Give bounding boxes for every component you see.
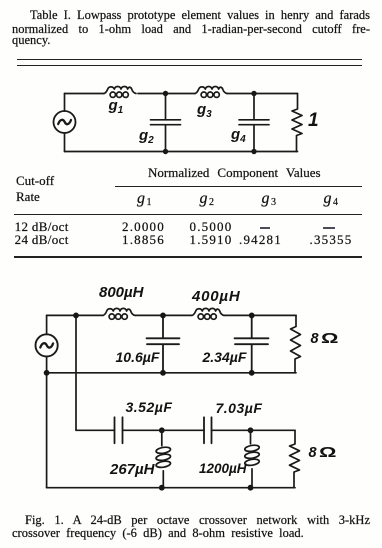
table rule under spanner header [115,186,362,187]
wire HP bottom rail [47,487,295,489]
wire LP bottom rail [47,372,296,374]
source V2 [36,334,58,356]
source V1 [54,111,76,133]
wire source top lead [46,315,48,334]
table bottom rule [14,256,362,258]
resistor R2 8ohm (highpass) [290,430,300,487]
Table I caption line 1 [30,9,370,22]
label g2 [139,128,154,148]
label g1 [109,98,124,118]
capacitor C2 2.34uF [235,315,269,372]
inductor L4 1200uH [244,430,259,487]
inductor L3 267uH [156,430,171,487]
resistor R1 8ohm (lowpass) [291,315,301,372]
capacitor C4 7.03uF [204,417,212,443]
node dots crossover [44,313,255,491]
inductor L2 400uH [192,308,224,319]
column header g2 [200,191,215,211]
wire LP top rail [47,314,296,316]
label 1200uH [199,461,247,476]
table row 24 dB/oct [15,233,69,246]
resistor R load 1 ohm [292,94,302,152]
column header g4 [324,191,339,211]
table header: Normalized Component Values [148,166,321,179]
inductor g1 [104,86,136,97]
column header g3 [262,191,277,211]
wire highpass feed (vertical from LP top to HP top) [75,315,77,430]
capacitor g2 [151,94,181,152]
label 2.34uF [203,349,247,365]
inductor L1 800uH [103,308,135,319]
label g3 [197,102,212,122]
label 800uH [99,284,144,301]
wire top rail circuit1 [65,93,298,95]
label 8 ohm lowpass [311,331,333,347]
wire bottom rail circuit1 [65,151,298,153]
wire source bottom lead [46,357,48,373]
inductor g3 [195,86,227,97]
node dots circuit1 [163,91,257,154]
label 400uH [192,288,241,305]
wire left leads circuit1 [64,94,66,152]
Fig.1 caption line 2 [12,527,304,540]
capacitor C3 3.52uF [115,417,123,443]
table double rule top [17,59,362,60]
label 267uH [110,461,155,478]
table rule under column headers [14,214,362,215]
label 10.6uF [116,349,160,365]
capacitor g4 [239,94,269,152]
Table I caption line 3 [12,34,50,47]
label 7.03uF [216,400,263,416]
table row 12 dB/oct [15,220,69,233]
Fig.1 caption line 1 [25,514,370,527]
column header g1 [137,191,152,211]
Table I caption line 2 [12,23,370,36]
capacitor C1 10.6uF [147,315,180,372]
label g4 [231,127,246,147]
label 1 ohm [308,110,319,132]
wire HP top rail [76,429,295,431]
wire source ground drop (to HP bottom rail) [46,373,48,488]
table stub header Cut-off Rate [16,173,54,205]
label 8 ohm highpass [309,445,331,461]
label 3.52uF [126,399,173,415]
